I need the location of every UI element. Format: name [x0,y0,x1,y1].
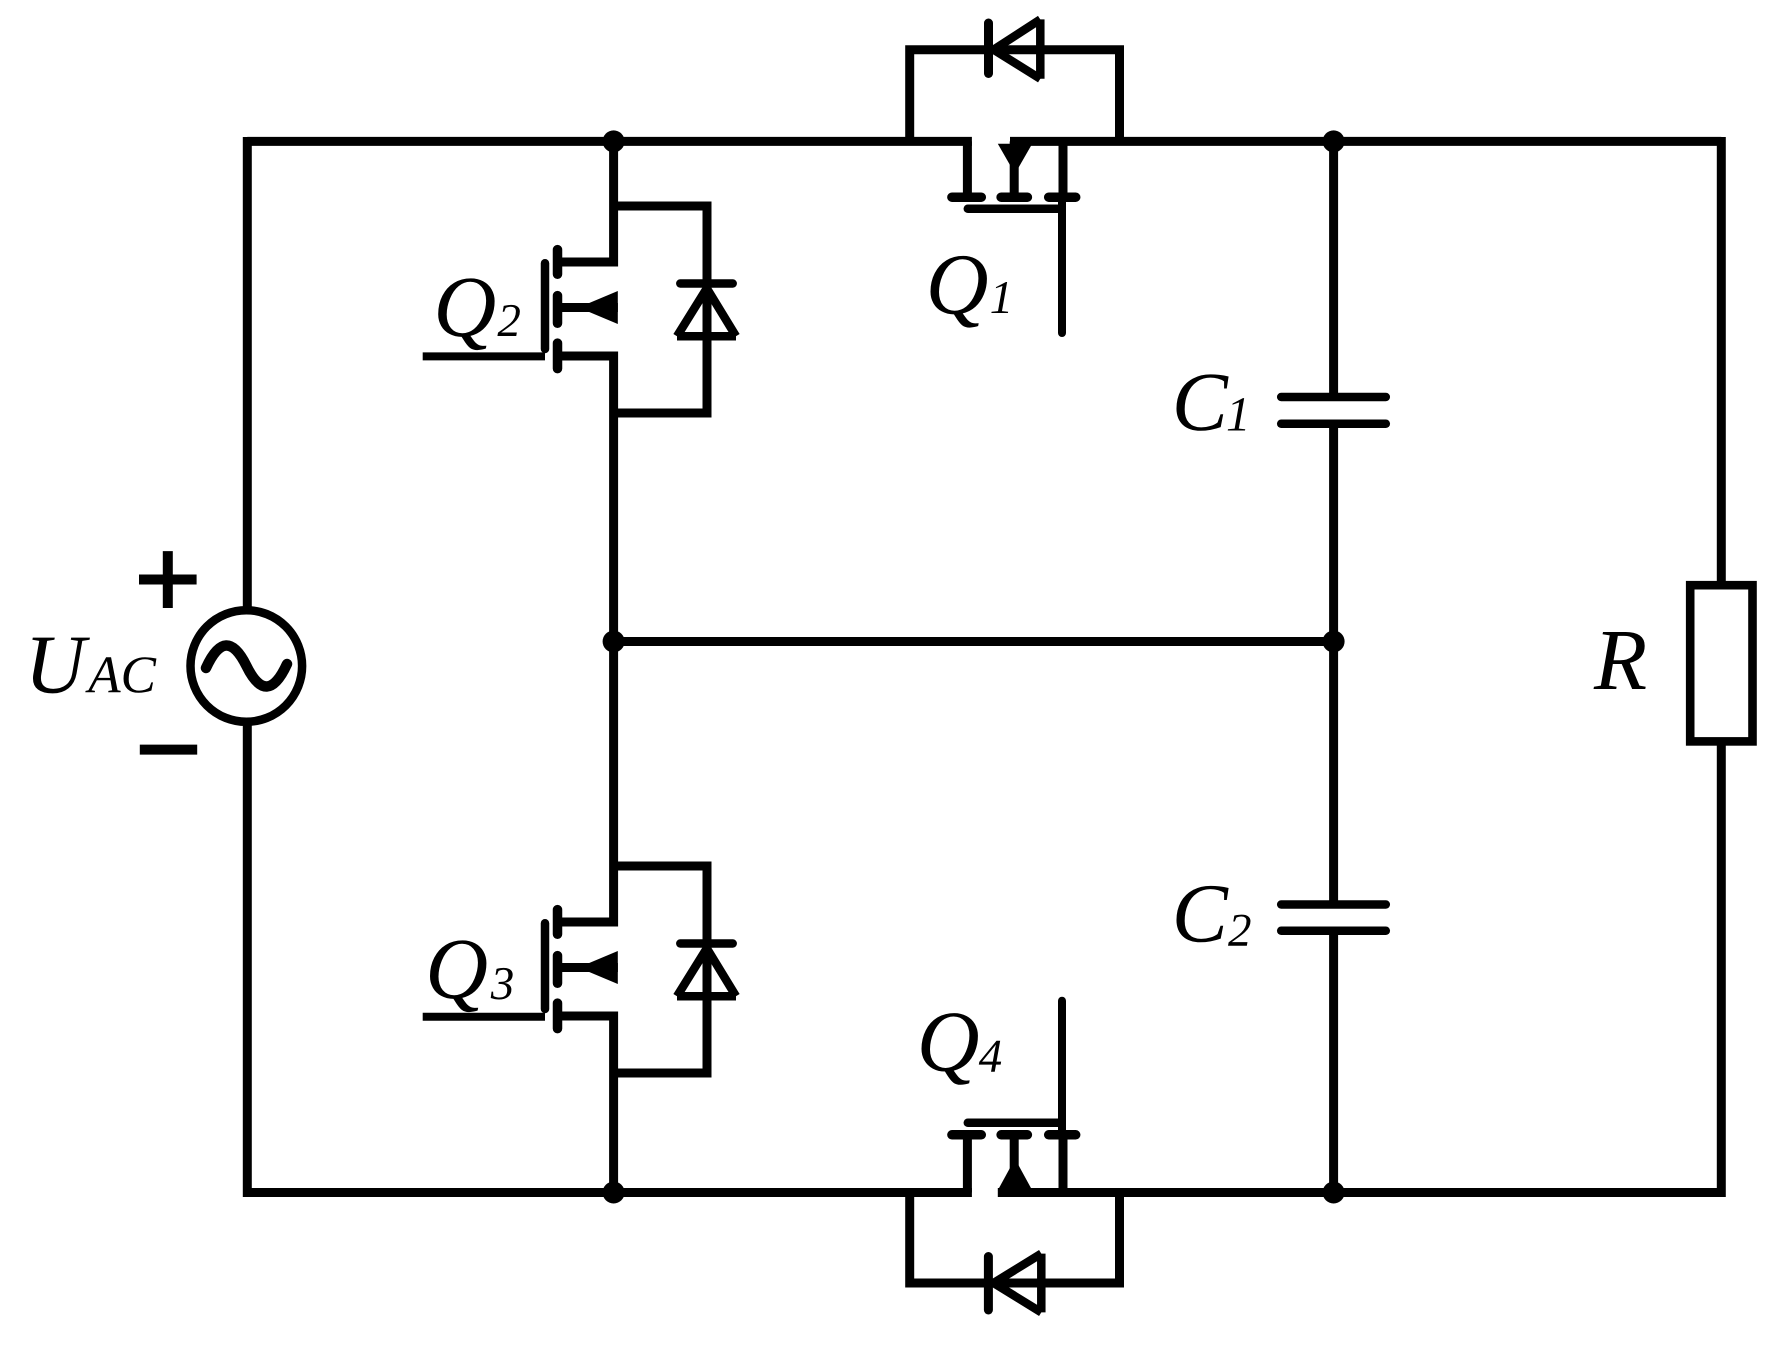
cathode bar [984,23,993,74]
gate bar [541,923,550,1009]
wire Q-branch vertical: node A to Q2 drain [609,141,618,266]
label Q1 [931,256,987,328]
label Q2 sub [497,305,519,336]
wire right rail lower [1717,741,1726,1197]
node (bottom, Q branch) [603,1182,625,1204]
wire C1 to middle node [1329,424,1338,642]
capacitor C2 [1281,905,1386,931]
anode triangle base [1037,1254,1046,1313]
body lead [558,963,618,972]
label C2 sub [1228,915,1250,946]
anode triangle base [677,332,736,341]
source lead [558,352,618,361]
anode triangle slants [677,948,736,996]
label R [1594,632,1646,689]
node (middle, C branch) [1323,631,1345,653]
cathode bar [680,939,732,948]
label Q2 [438,278,494,350]
gate bar [968,1119,1060,1128]
capacitor C1 [1281,397,1386,424]
transistor Q3 [423,910,618,1029]
source lead [1059,141,1068,197]
gate lead [1058,197,1066,333]
label C1 [1176,374,1228,430]
drain lead [963,141,972,201]
body lead [558,303,618,312]
node A (top, Q branch) [603,130,625,152]
wire right rail upper [1717,137,1726,585]
transistor Q2 [423,250,618,369]
body lead [1010,1131,1019,1193]
label U [32,638,90,694]
wire Q2 source to middle node B [609,352,618,642]
wire top rail right of Q1 [1010,137,1721,146]
diode D2 (body diode of Q2) [614,206,736,413]
diode D4 (body diode of Q4) [910,1193,1120,1313]
AC source U_AC [191,610,303,722]
drain lead [558,918,618,927]
diode D1 (body diode of Q1) [910,19,1120,141]
gate lead [1058,1001,1066,1135]
resistor R [1690,585,1752,741]
wire left rail upper [243,137,252,611]
channel bars [553,250,563,369]
plus sign [139,551,197,608]
node (bottom, C branch) [1323,1182,1345,1204]
wire C-branch: top rail to C1 [1329,141,1338,397]
wire top rail left of Q1 [247,137,972,146]
wire left rail lower [243,722,252,1198]
wire bottom rail left of Q4 [247,1188,972,1197]
gate lead [423,352,545,360]
source lead [558,1012,618,1021]
transistor Q1 [952,141,1076,333]
wire bottom rail right of Q4 [998,1188,1722,1197]
gate bar [541,263,550,349]
node B (middle, Q branch) [603,631,625,653]
cathode bar [984,1257,993,1311]
body arrow [579,291,618,324]
drain lead [558,258,618,267]
label Q3 sub [491,968,513,1000]
anode triangle slants [994,19,1041,78]
channel bars [952,192,1076,202]
body lead [1010,141,1019,201]
channel bars [553,910,563,1029]
anode triangle slants [994,1254,1042,1313]
body arrow [579,951,618,984]
drain lead [963,1131,972,1193]
node (top, C branch) [1323,130,1345,152]
gate bar [968,205,1060,214]
source lead [1059,1136,1068,1193]
label Q3 [430,940,486,1012]
wire C2 to bottom rail [1329,931,1338,1193]
diode D3 (body diode of Q3) [614,866,736,1073]
wire branch loop [910,1193,1120,1284]
wire branch loop [910,50,1120,142]
label U sub [85,657,156,693]
wire branch loop [614,866,707,1073]
wire middle node to C2 [1329,642,1338,905]
label C2 [1176,886,1228,942]
label Q1 sub [991,282,1008,313]
transistor Q4 [952,1001,1076,1193]
channel bars [952,1130,1076,1140]
wire branch loop [614,206,707,413]
minus sign [140,745,197,755]
anode triangle base [1036,19,1045,78]
cathode bar [680,279,732,288]
label C1 sub [1228,398,1245,430]
wire middle node B to Q3 drain [609,642,618,927]
anode triangle base [677,992,736,1001]
body arrow [998,1159,1032,1191]
anode triangle slants [677,288,736,336]
body arrow [998,144,1032,174]
label Q4 sub [979,1041,1001,1072]
label Q4 [922,1013,978,1085]
gate lead [423,1013,545,1021]
wire Q3 source to bottom rail [609,1012,618,1193]
wire middle horizontal [614,637,1334,646]
